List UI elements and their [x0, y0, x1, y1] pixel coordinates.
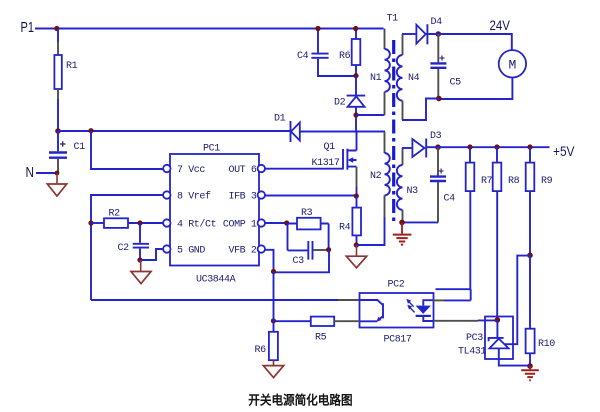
svg-text:C4: C4: [444, 194, 456, 205]
junction C1/N: [55, 171, 60, 176]
svg-text:M: M: [508, 58, 516, 73]
svg-text:24V: 24V: [490, 17, 511, 33]
node P1: [21, 19, 57, 36]
svg-text:R10: R10: [538, 339, 555, 350]
svg-text:R6: R6: [255, 345, 267, 356]
junction C2/GND: [137, 257, 142, 262]
svg-text:TL431: TL431: [458, 347, 486, 358]
wire COMP pin1: [265, 222, 288, 224]
resistor R9: [526, 147, 553, 255]
pin 3 IFB: [228, 191, 265, 202]
svg-text:P1: P1: [21, 19, 35, 36]
junction R4/N2: [354, 242, 359, 247]
svg-text:R5: R5: [315, 333, 327, 344]
svg-text:N2: N2: [370, 171, 382, 182]
svg-text:+5V: +5V: [553, 143, 575, 159]
transistor Q1 K1317: [312, 132, 357, 197]
svg-text:N1: N1: [370, 73, 382, 84]
ground C1: [47, 173, 66, 196]
svg-text:D1: D1: [274, 114, 286, 125]
svg-text:VFB 2: VFB 2: [228, 246, 256, 257]
phototransistor of PC2: [360, 300, 384, 322]
resistor R10: [526, 255, 556, 366]
wire Vcc branch to pin7: [91, 131, 163, 169]
junction R7 rail: [467, 144, 472, 149]
wire +5V rail: [426, 146, 549, 148]
svg-text:D2: D2: [334, 98, 346, 109]
wire OUT pin6 to gate: [265, 168, 343, 170]
junction source/IFB/R4: [354, 193, 359, 198]
wire N3 to D3: [402, 147, 412, 149]
svg-text:C4: C4: [297, 51, 309, 62]
junction R6 top rail: [353, 26, 358, 31]
resistor R3: [288, 208, 329, 250]
junction N3 ground: [399, 220, 405, 226]
pin 1 COMP: [223, 219, 265, 230]
diode D2: [334, 76, 365, 131]
svg-text:C2: C2: [118, 243, 130, 254]
svg-text:R2: R2: [109, 209, 121, 220]
capacitor C4 top: [297, 29, 356, 77]
wire R4 to N2 bottom: [357, 217, 385, 245]
svg-text:IFB 3: IFB 3: [228, 192, 256, 203]
svg-text:C5: C5: [450, 78, 462, 89]
pin 2 VFB: [228, 245, 265, 256]
svg-text:N: N: [26, 164, 35, 181]
wire IFB pin3 to source: [265, 195, 357, 197]
wire motor bottom: [439, 78, 513, 100]
junction R8 rail: [494, 144, 499, 149]
capacitor C4 output: [430, 147, 455, 222]
pin 6 OUT: [228, 165, 265, 176]
junction R6/C4/D2: [353, 73, 358, 78]
wire N4 bottom return: [402, 99, 439, 121]
junction VFB/R6: [271, 269, 276, 274]
wire LED cathode to TL431: [434, 320, 479, 322]
resistor R6 lower: [255, 332, 278, 360]
pin 4 Rt/Ct: [163, 219, 216, 231]
svg-text:UC3844A: UC3844A: [196, 275, 236, 286]
junction R2/C2/pin4: [137, 220, 142, 225]
regulator PC3 TL431: [458, 317, 530, 366]
svg-text:R6: R6: [339, 51, 351, 62]
caption 开关电源简化电路图: [249, 394, 352, 406]
junction C4 top rail: [315, 26, 320, 31]
junction COMP/R3: [284, 220, 289, 225]
ground C2: [131, 260, 151, 284]
IC PC1 UC3844A PWM controller box: [170, 144, 259, 286]
junction R8/LED/TL431: [495, 317, 501, 323]
svg-text:K1317: K1317: [312, 158, 340, 169]
ground R6: [263, 360, 283, 377]
wire ref tap: [504, 256, 531, 345]
svg-text:R1: R1: [66, 61, 78, 72]
svg-text:C3: C3: [293, 256, 305, 267]
junction D3/C4: [435, 144, 441, 150]
diode D1: [274, 114, 300, 143]
wire D4 to motor: [426, 34, 512, 50]
motor M: [499, 50, 526, 77]
diode D4: [416, 17, 442, 44]
svg-text:R7: R7: [481, 176, 493, 187]
junction D4/C5: [436, 31, 442, 37]
resistor R4: [339, 196, 361, 245]
wire C2 to pin5: [140, 249, 163, 260]
LED of PC2: [406, 299, 433, 321]
capacitor C5: [430, 34, 461, 99]
pin 7 Vcc: [163, 165, 205, 176]
opto-coupler PC2 PC817: [360, 280, 434, 346]
junction R10 ground: [527, 363, 533, 369]
svg-text:7 Vcc: 7 Vcc: [177, 165, 205, 176]
junction Vcc branch: [88, 128, 93, 133]
svg-text:R3: R3: [301, 208, 313, 219]
svg-text:N3: N3: [407, 186, 419, 197]
resistor R7: [466, 147, 493, 191]
svg-text:C1: C1: [74, 142, 86, 153]
wire R7 down to opto LED anode: [436, 191, 471, 300]
resistor R2: [91, 209, 163, 228]
wire collector rail: [91, 299, 338, 301]
junction R5/R6: [271, 318, 276, 323]
ground R10 earth: [521, 366, 539, 380]
junction Vref/R2: [88, 220, 93, 225]
svg-text:D4: D4: [431, 17, 443, 28]
svg-text:PC817: PC817: [384, 335, 412, 346]
wire D2 to N1 bottom: [356, 114, 385, 116]
svg-text:PC1: PC1: [203, 144, 220, 155]
svg-text:8 Vref: 8 Vref: [177, 191, 211, 203]
svg-text:PC2: PC2: [388, 280, 405, 291]
diode D3: [412, 131, 441, 158]
resistor R6 snubber: [339, 29, 360, 76]
svg-text:5 GND: 5 GND: [177, 246, 205, 257]
pin 5 GND: [163, 245, 205, 256]
svg-text:COMP 1: COMP 1: [223, 220, 257, 231]
svg-text:4 Rt/Ct: 4 Rt/Ct: [177, 219, 216, 231]
svg-text:R8: R8: [508, 176, 520, 187]
wire VFB down to R6: [273, 272, 275, 332]
wire C4 to ground: [402, 221, 438, 223]
junction C3/VFB: [326, 247, 331, 252]
svg-text:N4: N4: [408, 73, 420, 84]
junction R9/R10/ref: [527, 253, 533, 259]
capacitor C2: [118, 223, 150, 260]
svg-text:R9: R9: [541, 176, 553, 187]
resistor R1: [54, 29, 77, 132]
wire D1 to drain node and N2: [300, 131, 385, 133]
svg-text:PC3: PC3: [466, 333, 483, 344]
node N: [26, 164, 58, 181]
transformer T1: [370, 14, 420, 223]
capacitor C1: [49, 131, 85, 173]
wire LED anode to R7: [433, 299, 444, 301]
wire Vref pin8 to left rail: [91, 195, 163, 300]
junction P1/R1: [54, 26, 59, 31]
wire node to D1: [58, 130, 290, 132]
resistor R8: [493, 147, 520, 320]
junction D2/N1: [353, 112, 358, 117]
wire VFB pin2 loop: [265, 250, 329, 273]
wire N4 to D4: [402, 33, 416, 35]
junction R9 rail: [527, 144, 532, 149]
junction C5/motor return: [436, 96, 442, 102]
svg-text:R4: R4: [339, 223, 351, 234]
svg-text:D3: D3: [430, 131, 442, 142]
junction R1/C1/D1 node: [55, 128, 61, 134]
resistor R5: [274, 317, 360, 344]
pin 8 Vref: [163, 191, 211, 203]
svg-text:OUT 6: OUT 6: [228, 165, 256, 176]
ground N3 earth: [393, 222, 412, 244]
svg-text:Q1: Q1: [324, 142, 336, 153]
capacitor C3: [288, 241, 329, 267]
svg-text:T1: T1: [387, 14, 399, 25]
wire top rail from P1 to transformer: [57, 28, 384, 30]
ground R4: [346, 245, 366, 268]
